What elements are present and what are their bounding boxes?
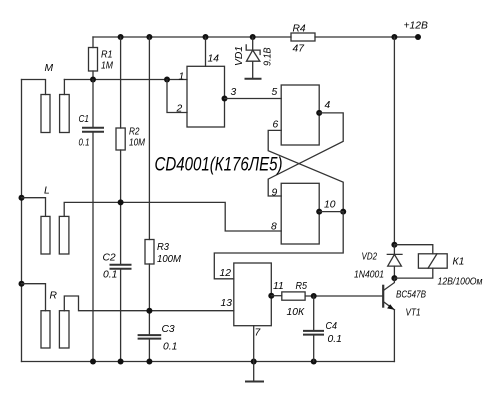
svg-text:5: 5 bbox=[272, 87, 278, 98]
wire R2 top lead bbox=[120, 37, 122, 128]
wire C4 bottom lead bbox=[313, 335, 315, 361]
op-amp U1C gate 3 bbox=[281, 183, 319, 244]
node pin1/pin2 tie bbox=[164, 77, 170, 83]
node pin 10 output bbox=[316, 209, 322, 215]
transistor VT1 bbox=[383, 278, 394, 361]
node pin10 junction bbox=[340, 209, 346, 215]
wire R1 bottom lead bbox=[92, 71, 94, 80]
diode VD2 bbox=[387, 245, 402, 278]
node rail junction to relay branch bbox=[391, 34, 397, 40]
wire top +9V rail bbox=[93, 36, 418, 38]
wire M left plate to left rail bbox=[22, 80, 46, 95]
node C3 on rail bbox=[146, 359, 152, 365]
svg-text:R3: R3 bbox=[157, 242, 169, 253]
node R1/C1 junction bbox=[90, 77, 96, 83]
ground of VD1 bbox=[246, 78, 261, 80]
wire R3 top lead bbox=[148, 37, 150, 240]
svg-text:0.1: 0.1 bbox=[79, 138, 90, 149]
svg-text:4: 4 bbox=[325, 100, 331, 111]
svg-text:CD4001(К176ЛЕ5): CD4001(К176ЛЕ5) bbox=[155, 155, 283, 176]
resistor R5 bbox=[282, 292, 305, 300]
resistor R4 bbox=[291, 33, 315, 41]
wire R5 to base node bbox=[305, 295, 383, 297]
wire node A line (pins 1-2 input node) bbox=[64, 79, 187, 81]
wire C2 top lead bbox=[120, 202, 122, 264]
svg-text:6: 6 bbox=[273, 120, 279, 131]
svg-text:C1: C1 bbox=[79, 114, 90, 125]
node VD2 cathode junction bbox=[391, 242, 397, 248]
node C1 on rail bbox=[90, 359, 96, 365]
svg-text:C3: C3 bbox=[162, 324, 175, 335]
wire C1 top lead bbox=[92, 80, 94, 128]
wire C3 bottom lead bbox=[148, 339, 150, 361]
svg-text:BC547В: BC547В bbox=[396, 290, 426, 301]
svg-text:12В/100Ом: 12В/100Ом bbox=[438, 277, 483, 288]
node C2 on rail bbox=[118, 359, 124, 365]
wire C1 bottom lead bbox=[92, 132, 94, 361]
ground of pin 7 bbox=[246, 381, 263, 383]
svg-text:11: 11 bbox=[273, 281, 284, 292]
svg-text:L: L bbox=[44, 186, 50, 197]
node pin 11 output bbox=[268, 293, 274, 299]
svg-text:C2: C2 bbox=[103, 253, 116, 264]
node R3 column on rail bbox=[146, 34, 152, 40]
node R5/C4/base junction bbox=[311, 293, 317, 299]
svg-text:К1: К1 bbox=[453, 257, 465, 268]
svg-text:14: 14 bbox=[208, 54, 220, 65]
svg-text:13: 13 bbox=[221, 298, 233, 309]
node R left junction bbox=[19, 281, 25, 287]
zener diode VD1 bbox=[246, 37, 260, 79]
resistor R3 bbox=[145, 240, 154, 265]
svg-text:C4: C4 bbox=[326, 321, 338, 332]
svg-text:0.1: 0.1 bbox=[103, 270, 117, 281]
wire pin 7 to ground bbox=[253, 362, 255, 382]
op-amp U1B gate 2 bbox=[281, 85, 319, 145]
svg-text:100М: 100М bbox=[157, 254, 181, 265]
relay K1 coil bbox=[418, 254, 447, 268]
wire L right plate to pin8 net bbox=[64, 202, 281, 231]
svg-text:M: M bbox=[45, 63, 54, 74]
relay K1 diagonal bbox=[428, 254, 437, 268]
svg-text:10М: 10М bbox=[129, 138, 145, 149]
svg-text:9.1В: 9.1В bbox=[263, 47, 274, 66]
capacitor C2 bbox=[111, 264, 131, 266]
electrode R left plate bbox=[41, 311, 50, 348]
svg-text:VD2: VD2 bbox=[362, 252, 378, 263]
svg-text:1: 1 bbox=[179, 72, 185, 83]
wire M right plate lead bbox=[63, 80, 65, 95]
electrode R right plate bbox=[59, 311, 69, 348]
wire relay top lead bbox=[394, 245, 432, 254]
svg-text:VD1: VD1 bbox=[234, 46, 245, 66]
wire relay bottom lead bbox=[394, 268, 432, 278]
wire L left plate to left rail bbox=[22, 198, 46, 217]
wire C3 top lead bbox=[148, 311, 150, 335]
wire pin2 branch bbox=[167, 80, 187, 113]
svg-text:R: R bbox=[50, 291, 58, 302]
svg-text:VT1: VT1 bbox=[406, 308, 421, 319]
electrode M right plate bbox=[60, 95, 70, 133]
svg-text:10: 10 bbox=[324, 200, 336, 211]
node pin 3 output bbox=[222, 96, 228, 102]
wire pin10 to pin12 bbox=[214, 212, 343, 279]
node R3/C3 junction on pin13 net bbox=[146, 308, 152, 314]
svg-text:+12В: +12В bbox=[404, 21, 428, 32]
wire C2 bottom lead bbox=[120, 269, 122, 361]
wire R1 top lead bbox=[92, 37, 94, 48]
capacitor C3 bbox=[139, 334, 161, 336]
electrode M left plate bbox=[41, 95, 50, 133]
node VD1 on rail bbox=[250, 34, 256, 40]
node R2/C2 junction on pin8 net bbox=[118, 199, 124, 205]
svg-text:10К: 10К bbox=[287, 307, 305, 318]
electrode L left plate bbox=[41, 216, 50, 254]
wire R right plate to pin13 net bbox=[64, 296, 234, 311]
svg-text:1М: 1М bbox=[101, 61, 113, 72]
svg-text:2: 2 bbox=[176, 104, 183, 115]
svg-text:R4: R4 bbox=[293, 24, 306, 35]
capacitor C1 bbox=[83, 127, 103, 129]
svg-text:0.1: 0.1 bbox=[163, 342, 177, 353]
svg-text:0.1: 0.1 bbox=[328, 334, 342, 345]
wire pin 7 lead bbox=[253, 326, 255, 362]
svg-text:47: 47 bbox=[293, 44, 306, 55]
svg-text:R2: R2 bbox=[129, 127, 140, 138]
op-amp U1D gate 4 bbox=[234, 263, 271, 326]
wire C4 top lead bbox=[313, 296, 315, 330]
svg-text:12: 12 bbox=[220, 268, 232, 279]
node pin 4 output bbox=[316, 110, 322, 116]
svg-text:R5: R5 bbox=[296, 281, 308, 292]
svg-text:9: 9 bbox=[272, 188, 278, 199]
wire left rail bbox=[21, 80, 23, 362]
wire R2 bottom lead bbox=[120, 150, 122, 202]
node pin7 on rail bbox=[251, 359, 257, 365]
wire pin11 to R5 bbox=[271, 295, 282, 297]
wire R3 bottom lead bbox=[148, 264, 150, 311]
wire +12V branch down to relay bbox=[393, 37, 395, 245]
svg-text:3: 3 bbox=[231, 87, 237, 98]
wire pin 14 lead bbox=[205, 37, 207, 66]
node L left junction bbox=[19, 195, 25, 201]
wire pin10 stub bbox=[319, 211, 343, 213]
wire bottom ground rail bbox=[22, 361, 395, 363]
wire pin4 to pin9 cross link bbox=[268, 113, 343, 196]
resistor R2 bbox=[116, 128, 125, 150]
electrode L right plate bbox=[59, 216, 69, 254]
node C4 on rail bbox=[311, 359, 317, 365]
node R2 column on rail bbox=[118, 34, 124, 40]
wire R left plate to left rail bbox=[22, 284, 46, 311]
resistor R1 bbox=[89, 48, 98, 72]
node pin14 on rail bbox=[203, 34, 209, 40]
svg-text:8: 8 bbox=[271, 222, 277, 233]
svg-text:1N4001: 1N4001 bbox=[354, 270, 384, 281]
node VD2 anode / collector junction bbox=[391, 275, 397, 281]
svg-text:R1: R1 bbox=[101, 50, 113, 61]
op-amp U1A gate 1 bbox=[187, 66, 225, 127]
node +12V terminal dot bbox=[415, 34, 421, 40]
wire pin6 to pin10 cross link bbox=[268, 130, 343, 211]
wire pin3 to pin5 bbox=[225, 98, 282, 100]
capacitor C4 bbox=[304, 330, 323, 332]
